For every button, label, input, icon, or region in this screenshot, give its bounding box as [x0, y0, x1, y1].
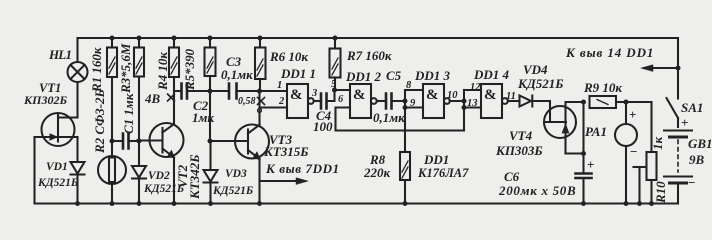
svg-text:2: 2 [278, 96, 285, 107]
svg-text:КП302Б: КП302Б [23, 93, 67, 107]
svg-text:8: 8 [406, 80, 412, 91]
svg-text:1мк: 1мк [192, 110, 214, 125]
transistor VT2 [173, 91, 175, 124]
svg-text:К выв 14 DD1: К выв 14 DD1 [565, 45, 654, 60]
svg-text:R5*390: R5*390 [182, 48, 197, 91]
resistor R1 [111, 38, 113, 48]
svg-text:13: 13 [467, 98, 478, 109]
transistor VT1 [42, 113, 75, 146]
svg-text:VD1: VD1 [46, 161, 68, 173]
svg-text:КТ315Б: КТ315Б [263, 144, 309, 159]
svg-text:VD4: VD4 [523, 62, 548, 77]
transistor VT3 [235, 125, 269, 159]
wire DD1.3 input tie [404, 90, 406, 108]
svg-text:&: & [353, 87, 366, 103]
resistor R8 [404, 108, 406, 153]
wire DD1.2 pin6 feedback [336, 108, 465, 131]
svg-text:1: 1 [277, 80, 282, 91]
op gate DD1.1 U1a [287, 84, 308, 118]
wire VT3 collector up / DD1.1 input tie [258, 91, 260, 125]
svg-text:DD1 2: DD1 2 [345, 69, 382, 84]
svg-text:0,1мк: 0,1мк [221, 67, 253, 82]
wire VT1 source down [76, 137, 78, 162]
svg-text:РА1: РА1 [585, 124, 607, 139]
diode VD4 [520, 96, 532, 107]
svg-text:DD1 3: DD1 3 [414, 68, 451, 83]
svg-text:DD1: DD1 [423, 152, 449, 167]
svg-text:С5: С5 [386, 68, 402, 83]
svg-text:HL1: HL1 [48, 47, 71, 62]
svg-text:VD2: VD2 [148, 170, 170, 182]
svg-text:&: & [426, 87, 439, 103]
wire DD1.1 pin2 [260, 106, 288, 108]
diode VD2 [132, 166, 146, 178]
capacitor C1 [112, 140, 123, 142]
svg-text:КД521Б: КД521Б [517, 76, 563, 91]
svg-text:GB1: GB1 [688, 136, 712, 151]
resistor R3 [138, 38, 140, 48]
op gate DD1.2 U1b [350, 84, 371, 118]
photoresistor R2 [98, 156, 126, 184]
svg-text:КД521Б: КД521Б [37, 177, 78, 189]
wire HL1 to VT1 drain [58, 82, 78, 118]
svg-text:+: + [681, 115, 688, 130]
wire R10 branch [626, 102, 652, 152]
svg-text:&: & [290, 87, 303, 103]
wire DD1.4 input tie [463, 90, 465, 131]
resistor R6 [259, 38, 261, 48]
svg-text:К176ЛА7: К176ЛА7 [417, 166, 469, 180]
resistor R7 [334, 38, 336, 49]
wire VD3 drop [209, 141, 211, 170]
svg-text:+: + [629, 107, 636, 122]
resistor R5 [209, 38, 211, 48]
wire bottom ground rail [35, 202, 679, 204]
svg-text:С1 1мк: С1 1мк [121, 93, 136, 134]
svg-text:5: 5 [331, 79, 336, 90]
svg-text:КД521Б: КД521Б [212, 185, 253, 197]
wire top supply rail [78, 37, 679, 39]
resistor R4 [173, 38, 175, 48]
capacitor C4 [321, 94, 327, 109]
svg-text:+: + [587, 157, 594, 172]
svg-text:−: − [688, 175, 695, 190]
capacitor C5 [386, 94, 392, 109]
arrow to pin 14 DD1 [646, 67, 678, 69]
svg-text:&: & [484, 87, 497, 103]
svg-text:R9 10к: R9 10к [583, 80, 622, 95]
svg-text:R4 10к: R4 10к [155, 52, 170, 91]
svg-text:SA1: SA1 [681, 100, 703, 115]
transistor VT4 [544, 106, 576, 138]
svg-text:100: 100 [313, 119, 333, 134]
svg-text:220к: 220к [363, 165, 391, 180]
wire VT4 source to C6 [566, 152, 584, 154]
svg-text:R6 10к: R6 10к [269, 49, 308, 64]
svg-text:R7 160к: R7 160к [346, 48, 392, 63]
wire DD1.2 pin5 [335, 89, 351, 91]
svg-text:R2 СФ3-2Б: R2 СФ3-2Б [92, 89, 107, 154]
capacitor C6 [576, 174, 592, 179]
diode VD1 [71, 162, 85, 174]
resistor R10 (trimmer) [647, 152, 657, 180]
svg-text:0,58: 0,58 [238, 96, 256, 107]
svg-text:С6: С6 [504, 169, 520, 184]
svg-text:11: 11 [506, 91, 516, 102]
svg-text:9: 9 [410, 98, 416, 109]
wire HL1 top [76, 38, 78, 62]
svg-text:VT4: VT4 [509, 128, 533, 143]
svg-text:DD1 1: DD1 1 [280, 66, 316, 81]
wire switch column [677, 38, 679, 99]
resistor R9 [590, 96, 617, 108]
svg-text:DD1 4: DD1 4 [473, 67, 510, 82]
svg-text:12: 12 [470, 82, 481, 93]
svg-text:10: 10 [447, 90, 458, 101]
battery GB1 [664, 130, 692, 132]
capacitor C2 [174, 90, 182, 92]
wire VT4 drain row [566, 101, 584, 103]
op gate DD1.3 U1c [423, 84, 444, 118]
diode VD3 [204, 170, 218, 182]
svg-text:9В: 9В [689, 152, 705, 167]
wire left vertical (VT1 gate to ground) [33, 137, 35, 204]
svg-text:−: − [630, 144, 637, 159]
op gate DD1.4 U1d [481, 84, 502, 118]
svg-text:6: 6 [338, 94, 344, 105]
svg-text:1к: 1к [650, 137, 665, 151]
arrow to pin 7 DD1 [260, 180, 304, 182]
svg-text:0,1мк: 0,1мк [373, 110, 405, 125]
svg-text:R10: R10 [653, 181, 668, 204]
svg-text:200мк x 50В: 200мк x 50В [498, 183, 576, 198]
svg-text:К выв 7DD1: К выв 7DD1 [265, 161, 340, 176]
meter PA1 [625, 102, 627, 124]
svg-text:КП303Б: КП303Б [495, 143, 543, 158]
wire R5 node down to VT3 base [209, 91, 211, 141]
svg-text:3: 3 [311, 88, 317, 99]
svg-text:R3*5,6М: R3*5,6М [118, 43, 133, 94]
test point x 0,58 [258, 98, 265, 105]
svg-text:КТ342Б: КТ342Б [187, 154, 202, 200]
svg-text:4В: 4В [144, 91, 161, 106]
svg-text:VD3: VD3 [225, 168, 247, 180]
switch SA1 [667, 98, 679, 118]
svg-text:R1 160к: R1 160к [89, 47, 104, 93]
lamp HL1 [68, 62, 88, 82]
capacitor C3 [229, 84, 237, 99]
